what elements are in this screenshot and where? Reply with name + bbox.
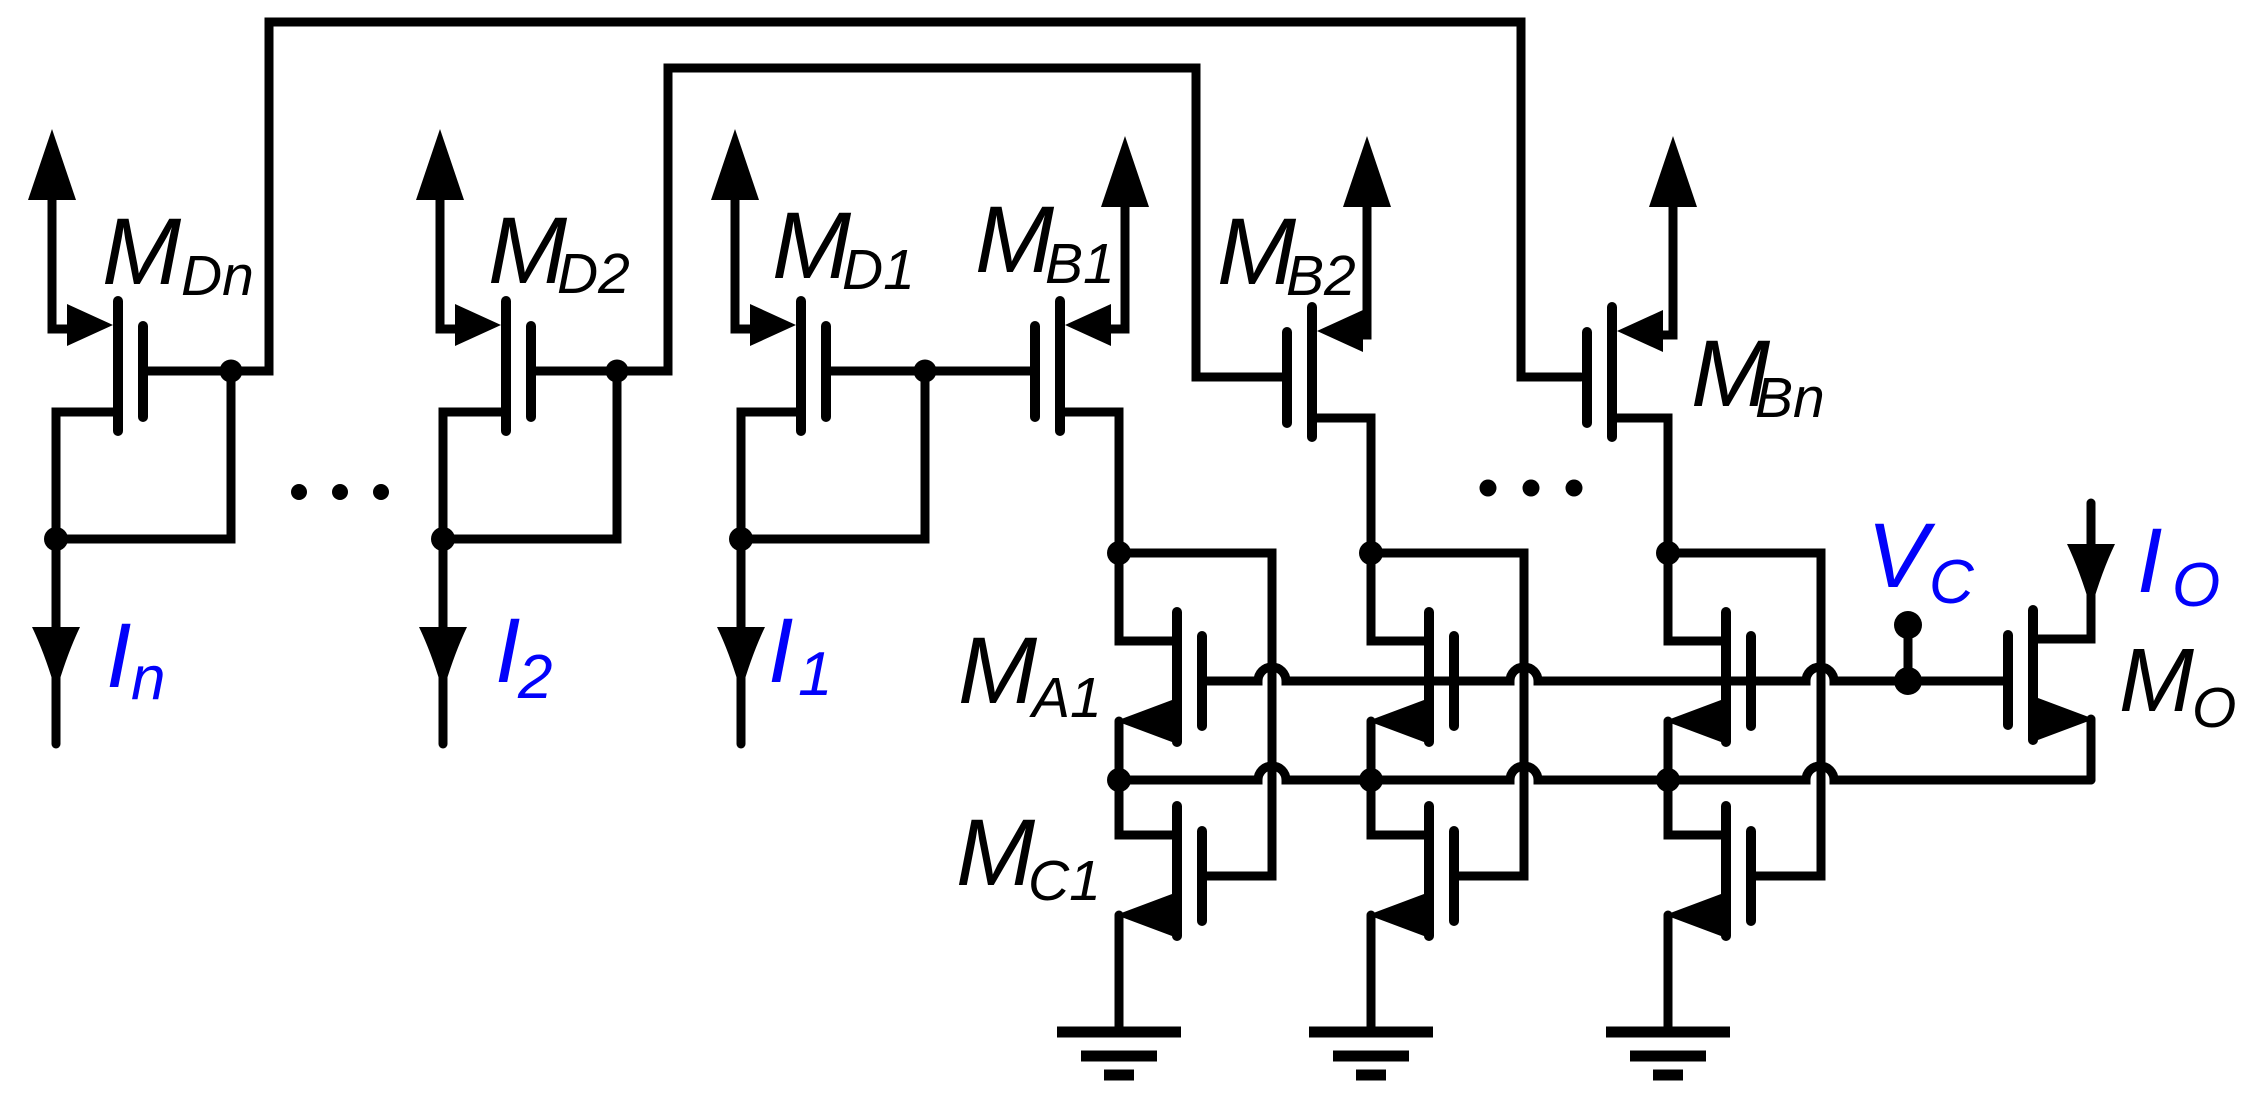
current sink In wire bbox=[52, 539, 61, 744]
junction dot node N1 bbox=[1107, 541, 1131, 565]
wire MA2 source bbox=[1367, 721, 1376, 780]
transistor MAn bbox=[1665, 612, 1751, 742]
junction dot node I1 bbox=[729, 527, 753, 551]
wire MC1 source bbox=[1115, 915, 1124, 1027]
transistor MB2 bbox=[1287, 307, 1363, 437]
junction dot MDn gate bbox=[220, 360, 243, 383]
svg-text:D2: D2 bbox=[557, 242, 630, 306]
wire MDn source to supply bbox=[52, 199, 75, 329]
svg-text:I: I bbox=[495, 600, 521, 702]
svg-text:1: 1 bbox=[798, 640, 832, 709]
ellipsis between MB2 and MBn columns bbox=[1480, 480, 1583, 497]
label I2 bbox=[495, 600, 552, 712]
svg-text:C1: C1 bbox=[1028, 849, 1101, 913]
power supply arrow MB2 bbox=[1343, 136, 1391, 207]
wire MC2 source bbox=[1367, 915, 1376, 1027]
transistor MB1 bbox=[1035, 301, 1111, 431]
power supply arrow MDn bbox=[28, 129, 76, 200]
wire MAn drain bbox=[1668, 553, 1721, 641]
label MBn bbox=[1691, 321, 1825, 430]
ground col 3 bbox=[1606, 1032, 1730, 1075]
current sink I2 wire bbox=[439, 539, 448, 744]
wire MD1 gate-drain diode link bbox=[741, 371, 925, 539]
junction dot node N3 bbox=[1656, 541, 1680, 565]
wire MDn gate-drain diode link bbox=[56, 371, 231, 539]
wire MD1 drain bbox=[741, 412, 796, 539]
wire node N2 to MC2 gate bbox=[1371, 553, 1524, 876]
wire VC gate rail: MA gates to MO gate bbox=[1202, 667, 2004, 681]
ground col 2 bbox=[1309, 1032, 1433, 1075]
svg-text:C: C bbox=[1929, 548, 1975, 617]
wire MA1 source bbox=[1115, 721, 1124, 780]
wire MD1 gate lead to MB1 gate bbox=[831, 367, 1035, 376]
current sink In arrowhead bbox=[32, 627, 80, 692]
svg-text:M: M bbox=[975, 187, 1055, 293]
svg-text:I: I bbox=[2137, 510, 2163, 612]
junction dot node In bbox=[44, 527, 68, 551]
label I1 bbox=[768, 600, 832, 709]
wire MB1 drain to node N1 bbox=[1065, 412, 1119, 548]
svg-text:M: M bbox=[958, 618, 1038, 724]
wire MBn drain to node N3 bbox=[1617, 418, 1668, 548]
junction dot source rail col 1 bbox=[1107, 768, 1131, 792]
label MD1 bbox=[772, 193, 915, 302]
transistor MA2 bbox=[1368, 612, 1454, 742]
wire MB1 source to supply bbox=[1102, 206, 1125, 329]
wire MD1 source to supply bbox=[735, 199, 758, 329]
wire MA2 drain bbox=[1371, 553, 1424, 641]
svg-text:M: M bbox=[956, 800, 1036, 906]
svg-text:I: I bbox=[768, 600, 794, 702]
ellipsis between MDn and MD2 columns bbox=[291, 484, 389, 500]
wire VC stub bbox=[1904, 625, 1913, 681]
wire MB2 source to supply bbox=[1354, 206, 1367, 335]
label MB2 bbox=[1217, 199, 1356, 308]
junction dot MD1 gate bbox=[914, 360, 937, 383]
svg-text:M: M bbox=[102, 199, 182, 305]
transistor MD2 bbox=[455, 301, 531, 431]
label MD2 bbox=[488, 198, 630, 306]
svg-text:2: 2 bbox=[517, 643, 552, 712]
transistor MBn bbox=[1587, 307, 1663, 437]
wire MO drain to IO bbox=[2038, 503, 2091, 639]
junction dot node N2 bbox=[1359, 541, 1383, 565]
wire MA1 drain bbox=[1119, 553, 1172, 641]
svg-text:V: V bbox=[1867, 505, 1936, 607]
junction dot source rail col 2 bbox=[1359, 768, 1383, 792]
wire source rail: MA sources and MC drains to MO source bbox=[1119, 766, 2091, 780]
transistor MC2 bbox=[1368, 806, 1454, 936]
svg-text:O: O bbox=[2172, 551, 2220, 620]
power supply arrow MB1 bbox=[1101, 136, 1149, 207]
wire MD2 gate-drain diode link bbox=[443, 371, 617, 539]
svg-text:A1: A1 bbox=[1029, 666, 1102, 730]
label MDn bbox=[102, 199, 254, 308]
current IO arrowhead bbox=[2067, 544, 2115, 609]
wire top rail 2: MD2 gate to MB2 gate bbox=[617, 68, 1285, 377]
label MA1 bbox=[958, 618, 1102, 730]
current sink I1 wire bbox=[737, 539, 746, 744]
wire MD2 source to supply bbox=[440, 199, 463, 329]
wire top rail 1: MDn gate to MBn gate bbox=[231, 22, 1581, 377]
svg-text:Dn: Dn bbox=[181, 244, 254, 308]
wire MAn source bbox=[1664, 721, 1673, 780]
transistor MO bbox=[2008, 610, 2094, 740]
wire node N1 to MC1 gate bbox=[1119, 553, 1272, 876]
junction dot source rail col 3 bbox=[1656, 768, 1680, 792]
transistor MD1 bbox=[750, 301, 826, 431]
svg-text:M: M bbox=[488, 198, 568, 304]
svg-text:O: O bbox=[2192, 676, 2236, 740]
label VC bbox=[1867, 505, 1975, 617]
junction dot node I2 bbox=[431, 527, 455, 551]
wire node N3 to MCn gate bbox=[1668, 553, 1821, 876]
svg-text:M: M bbox=[772, 193, 852, 299]
junction dot VC on gate rail bbox=[1894, 667, 1922, 695]
transistor MC1 bbox=[1116, 806, 1202, 936]
svg-text:M: M bbox=[2119, 631, 2194, 731]
wire MD2 drain bbox=[443, 412, 501, 539]
transistor MA1 bbox=[1116, 612, 1202, 742]
transistor MDn bbox=[67, 301, 143, 431]
svg-text:I: I bbox=[106, 605, 132, 707]
svg-text:D1: D1 bbox=[842, 238, 915, 302]
current sink I2 arrowhead bbox=[419, 627, 467, 692]
svg-text:B1: B1 bbox=[1045, 232, 1115, 296]
wire MO source bbox=[2087, 719, 2096, 780]
wire MC2 drain bbox=[1371, 780, 1424, 835]
power supply arrow MD1 bbox=[711, 129, 759, 200]
terminal VC dot bbox=[1894, 611, 1922, 639]
label In bbox=[106, 605, 165, 713]
transistor MCn bbox=[1665, 806, 1751, 936]
power supply arrow MBn bbox=[1649, 136, 1697, 207]
svg-text:Bn: Bn bbox=[1755, 366, 1825, 430]
svg-text:n: n bbox=[131, 644, 165, 713]
label MC1 bbox=[956, 800, 1101, 913]
wire MCn drain bbox=[1668, 780, 1721, 835]
wire MC1 drain bbox=[1119, 780, 1172, 835]
junction dot MD2 gate bbox=[606, 360, 629, 383]
label IO bbox=[2137, 510, 2220, 620]
power supply arrow MD2 bbox=[416, 129, 464, 200]
wire MD2 gate lead bbox=[536, 367, 617, 376]
wire MCn source bbox=[1664, 915, 1673, 1027]
wire MDn drain bbox=[56, 412, 113, 539]
label MB1 bbox=[975, 187, 1115, 296]
svg-text:B2: B2 bbox=[1286, 244, 1356, 308]
wire MDn gate lead bbox=[148, 367, 231, 376]
label MO bbox=[2119, 631, 2236, 740]
wire MBn source to supply bbox=[1654, 206, 1673, 335]
wire MB2 drain to node N2 bbox=[1317, 418, 1371, 548]
ground col 1 bbox=[1057, 1032, 1181, 1075]
current sink I1 arrowhead bbox=[717, 627, 765, 692]
svg-text:M: M bbox=[1217, 199, 1297, 305]
